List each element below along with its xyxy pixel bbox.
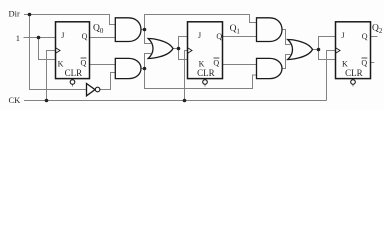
svg-text:J: J xyxy=(61,31,64,40)
svg-text:0: 0 xyxy=(100,27,104,35)
svg-text:1: 1 xyxy=(236,28,240,36)
svg-text:J: J xyxy=(198,31,201,40)
svg-text:Q: Q xyxy=(81,58,87,67)
svg-text:Dir: Dir xyxy=(9,9,21,19)
svg-text:J: J xyxy=(341,31,344,40)
svg-text:CLR: CLR xyxy=(65,68,83,78)
svg-text:2: 2 xyxy=(379,27,383,35)
svg-text:CK: CK xyxy=(9,95,22,105)
svg-text:K: K xyxy=(58,59,64,68)
svg-text:CLR: CLR xyxy=(197,68,215,78)
svg-text:Q: Q xyxy=(213,58,219,67)
svg-text:Q: Q xyxy=(82,32,88,41)
svg-text:K: K xyxy=(342,59,348,68)
svg-text:CLR: CLR xyxy=(345,68,363,78)
svg-text:Q: Q xyxy=(362,32,368,41)
svg-text:K: K xyxy=(199,59,205,68)
svg-text:Q: Q xyxy=(216,32,222,41)
svg-text:1: 1 xyxy=(16,33,20,43)
svg-text:Q: Q xyxy=(361,58,367,67)
